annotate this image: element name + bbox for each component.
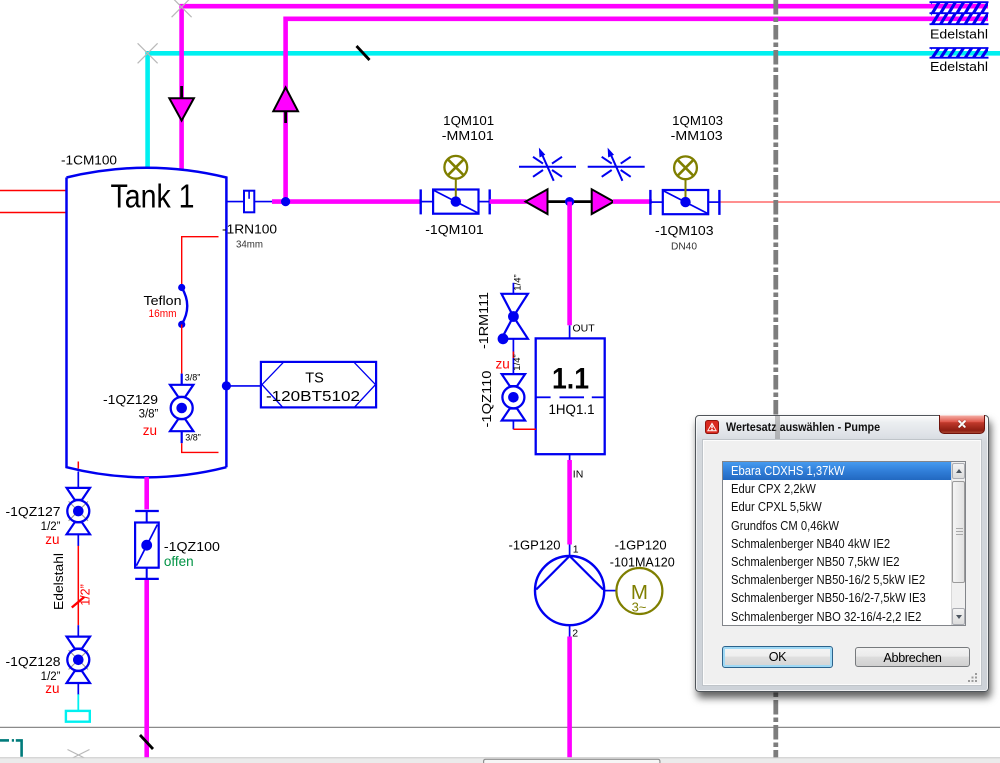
wire: blue link -1RM111 to -1QZ110 — [512, 339, 514, 375]
svg-text:-1GP120: -1GP120 — [509, 538, 561, 553]
svg-text:-1CM100: -1CM100 — [61, 153, 117, 168]
svg-text:1.1: 1.1 — [552, 363, 589, 396]
pipe break slash on cyan line — [357, 46, 370, 60]
wire: red internal pipe elbow (bottom) — [182, 443, 219, 452]
svg-text:2: 2 — [572, 628, 578, 640]
svg-text:TS: TS — [305, 371, 324, 387]
flow arrow pointing right at junction — [592, 189, 614, 214]
pipe break slash on bottom magenta line — [140, 735, 153, 749]
wire: blue stub 1.1 IN — [569, 454, 571, 461]
wire: blue link pump to motor — [604, 590, 616, 592]
svg-text:3/8”: 3/8” — [185, 433, 201, 443]
svg-text:Tank 1: Tank 1 — [111, 179, 195, 216]
wire: blue stub above -1RM111 — [512, 283, 514, 295]
svg-text:-1GP120: -1GP120 — [615, 538, 667, 553]
svg-text:1/4”: 1/4” — [512, 274, 523, 290]
wire: blue stub below -1QZ110 — [512, 421, 514, 430]
svg-text:Edelstahl: Edelstahl — [930, 59, 988, 74]
wire: black link between meeting arrows — [547, 200, 593, 203]
wire: thin gray horizontal frame line — [0, 726, 1000, 728]
svg-text:-1QM103: -1QM103 — [655, 223, 714, 238]
wire: red link to unit 1.1 left side — [513, 428, 536, 430]
resize grip — [968, 673, 978, 682]
svg-text:zu: zu — [496, 357, 510, 372]
needle valve -1RM111 (bowtie with dots) — [498, 294, 528, 344]
flow arrow pointing left at junction — [526, 189, 548, 214]
spray/agitator symbol 1 — [519, 148, 576, 181]
value-set list box — [722, 461, 966, 626]
teal boundary frame corner (dash-dot) — [0, 740, 22, 756]
OK button — [722, 646, 833, 668]
svg-text:-1QZ127: -1QZ127 — [6, 504, 61, 519]
motor valve -1QM103 with actuator -MM103 — [650, 156, 719, 214]
svg-text:Teflon: Teflon — [144, 293, 182, 308]
svg-text:-MM103: -MM103 — [671, 128, 723, 143]
orifice -1RN100 — [244, 191, 254, 213]
valve -1QZ129 — [170, 385, 193, 431]
svg-text:-1QM101: -1QM101 — [425, 222, 484, 237]
wire: magenta pipe line 2 (second top run + drop to main junction) — [286, 19, 988, 202]
svg-text:-MM101: -MM101 — [442, 128, 494, 143]
svg-text:1HQ1.1: 1HQ1.1 — [549, 401, 595, 417]
flow arrow down on magenta drop 1 — [169, 86, 194, 121]
svg-text:-101MA120: -101MA120 — [610, 555, 675, 570]
wire: red internal pipe to valve -1QZ129 — [181, 324, 183, 373]
svg-text:zu: zu — [45, 532, 59, 547]
svg-text:zu: zu — [143, 423, 157, 438]
wire: blue stub above -1QZ129 — [181, 374, 183, 385]
wire: blue stub into 1.1 OUT — [569, 325, 571, 338]
wire: magenta main line segment after -1QM101 — [490, 199, 527, 204]
svg-text:1QM103: 1QM103 — [672, 113, 723, 128]
drain box (cyan) — [66, 711, 90, 722]
wire: magenta main process line (junction to -1QM101) — [272, 199, 421, 204]
dialog title bar — [696, 416, 988, 440]
svg-text:3/8”: 3/8” — [185, 373, 201, 383]
wire: red pipe between -1QZ127 and -1QZ128 — [77, 546, 79, 625]
pump -1GP120 circle symbol — [535, 556, 604, 625]
close button — [939, 415, 985, 434]
unit block 1.1 / 1HQ1.1 — [536, 338, 605, 454]
hatched pipe-class terminator (Edelstahl) for magenta lines — [923, 0, 998, 15]
wire: magenta tank bottom outlet — [144, 477, 149, 509]
wire: blue stub below -1QZ129 — [181, 431, 183, 443]
wire: magenta riser from junction down to unit 1.1 — [567, 202, 572, 326]
wire: magenta pipe line 1 (top run + drop to tank) — [182, 6, 988, 170]
svg-text:34mm: 34mm — [236, 239, 263, 251]
svg-text:-1RM111: -1RM111 — [476, 292, 491, 349]
red zu tick on link — [512, 352, 514, 359]
wire: magenta segment to -1QM103 — [613, 199, 652, 204]
wire: magenta discharge line to bottom — [567, 637, 572, 758]
list scrollbar — [951, 462, 966, 625]
wire: cyan drain stub — [77, 694, 79, 711]
Abbrechen button — [855, 647, 970, 668]
svg-text:offen: offen — [164, 554, 194, 569]
wire: blue outlet from tank to -1RN100 — [226, 201, 244, 203]
temperature sensor box TS -120BT5102 — [261, 362, 376, 408]
wire: cyan pipe (horizontal run + drop to tank) — [148, 53, 1000, 168]
node: junction of riser 2 and main line — [281, 197, 290, 206]
svg-text:Edelstahl: Edelstahl — [930, 27, 988, 42]
wire: blue stub to -1QZ127 — [77, 472, 79, 489]
node: junction dot to 1.1 riser — [565, 197, 574, 206]
wire: blue stub to -1QZ128 — [77, 625, 79, 637]
wire: salmon red pipe line right of -1QM103 — [718, 201, 1000, 203]
bottom panel box — [484, 759, 660, 763]
plot boundary: gray dash-dot vertical line — [773, 0, 778, 763]
wire: blue stub pump port 2 — [569, 625, 571, 637]
svg-text:-1QZ110: -1QZ110 — [479, 371, 494, 428]
svg-text:3~: 3~ — [632, 600, 647, 615]
svg-text:-1QZ100: -1QZ100 — [164, 539, 220, 554]
svg-text:Edelstahl: Edelstahl — [52, 553, 66, 610]
wire: magenta line 1.1 to pump — [567, 460, 572, 545]
svg-text:OUT: OUT — [573, 323, 596, 335]
bottom application band — [0, 758, 1000, 763]
wire: blue stub below -1QZ128 — [77, 683, 79, 695]
valve -1QZ128 — [67, 637, 90, 683]
construction marker X at drain bottom — [68, 750, 90, 761]
wire: blue link -1RN100 to junction — [254, 201, 274, 203]
svg-text:DN40: DN40 — [671, 241, 697, 253]
flexible hose (Teflon) arc with end dots — [178, 284, 187, 328]
valve -1QZ127 — [67, 488, 90, 534]
svg-text:IN: IN — [573, 469, 584, 481]
svg-text:1/2”: 1/2” — [79, 584, 93, 606]
wire: red internal pipe elbow (top) — [182, 237, 219, 288]
hatched pipe-class terminator (Edelstahl) for cyan line — [923, 46, 998, 60]
dialog: Wertesatz auswaehlen - Pumpe — [695, 415, 989, 692]
svg-text:16mm: 16mm — [149, 308, 177, 320]
construction marker X at cyan corner — [138, 43, 158, 63]
motor valve -1QM101 with actuator -MM101 — [421, 156, 490, 214]
dialog inner panel — [703, 440, 981, 685]
svg-text:3/8”: 3/8” — [139, 409, 159, 421]
construction marker X at magenta corner — [172, 0, 192, 17]
valve -1QZ110 — [502, 374, 525, 420]
node: junction dot on tank wall to TS sensor — [222, 381, 231, 390]
wire: blue link to TS box — [226, 385, 261, 387]
spray/agitator symbol 2 — [588, 148, 645, 181]
motor M 3~ -101MA120 — [616, 568, 662, 615]
svg-text:-120BT5102: -120BT5102 — [266, 389, 360, 405]
svg-text:1QM101: 1QM101 — [443, 113, 494, 128]
svg-text:1/4”: 1/4” — [512, 354, 523, 370]
wire: red stub inside tank bottom left — [77, 462, 79, 469]
wire: blue stub to pump port 1 — [569, 545, 571, 558]
wire: red stub line to tank upper left — [0, 190, 67, 192]
wire: magenta line below -1QZ100 to bottom — [144, 580, 149, 757]
svg-text:-1RN100: -1RN100 — [222, 222, 277, 237]
wire: blue stub below -1QZ127 — [77, 534, 79, 546]
wire: red stub line to tank left — [0, 212, 67, 214]
red slash pipe-size marker — [72, 597, 84, 608]
svg-text:zu: zu — [45, 681, 59, 696]
svg-text:1: 1 — [573, 544, 579, 556]
svg-text:-1QZ128: -1QZ128 — [6, 654, 61, 669]
warning icon — [705, 420, 719, 434]
valve -1QZ100 (rect with diagonal) — [135, 511, 159, 579]
flow arrow up on magenta drop 2 — [273, 87, 298, 123]
svg-text:-1QZ129: -1QZ129 — [103, 392, 158, 407]
tank -1CM100 vessel outline — [67, 168, 227, 478]
